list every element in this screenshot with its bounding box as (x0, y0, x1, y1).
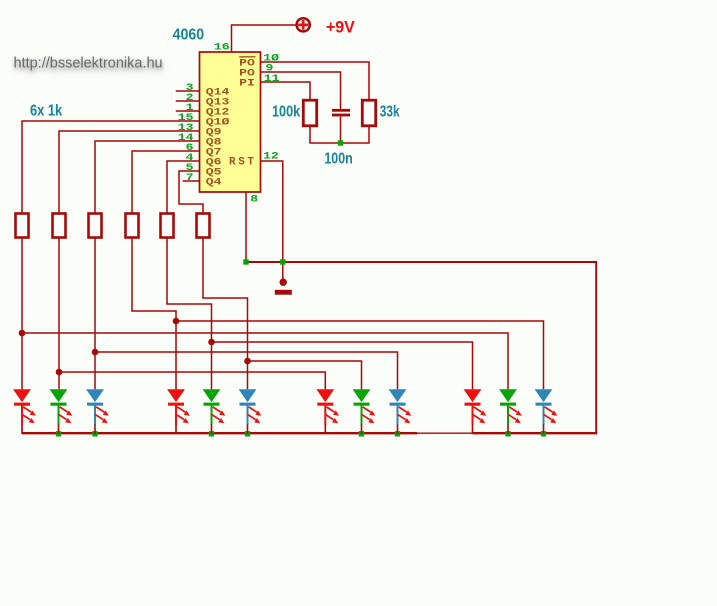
svg-text:100k: 100k (272, 104, 301, 121)
svg-text:16: 16 (214, 40, 230, 52)
svg-text:PI: PI (239, 77, 255, 89)
svg-text:8: 8 (250, 192, 258, 204)
svg-text:http://bsselektronika.hu: http://bsselektronika.hu (14, 56, 163, 72)
svg-text:4060: 4060 (173, 27, 205, 44)
svg-text:6x 1k: 6x 1k (30, 103, 63, 120)
svg-text:12: 12 (263, 149, 279, 161)
svg-text:7: 7 (186, 171, 194, 183)
svg-text:Q4: Q4 (206, 176, 222, 188)
svg-text:+9V: +9V (326, 17, 356, 36)
svg-text:RST: RST (229, 157, 257, 169)
svg-text:33k: 33k (380, 104, 400, 121)
svg-text:11: 11 (264, 72, 280, 84)
svg-text:100n: 100n (324, 151, 352, 168)
